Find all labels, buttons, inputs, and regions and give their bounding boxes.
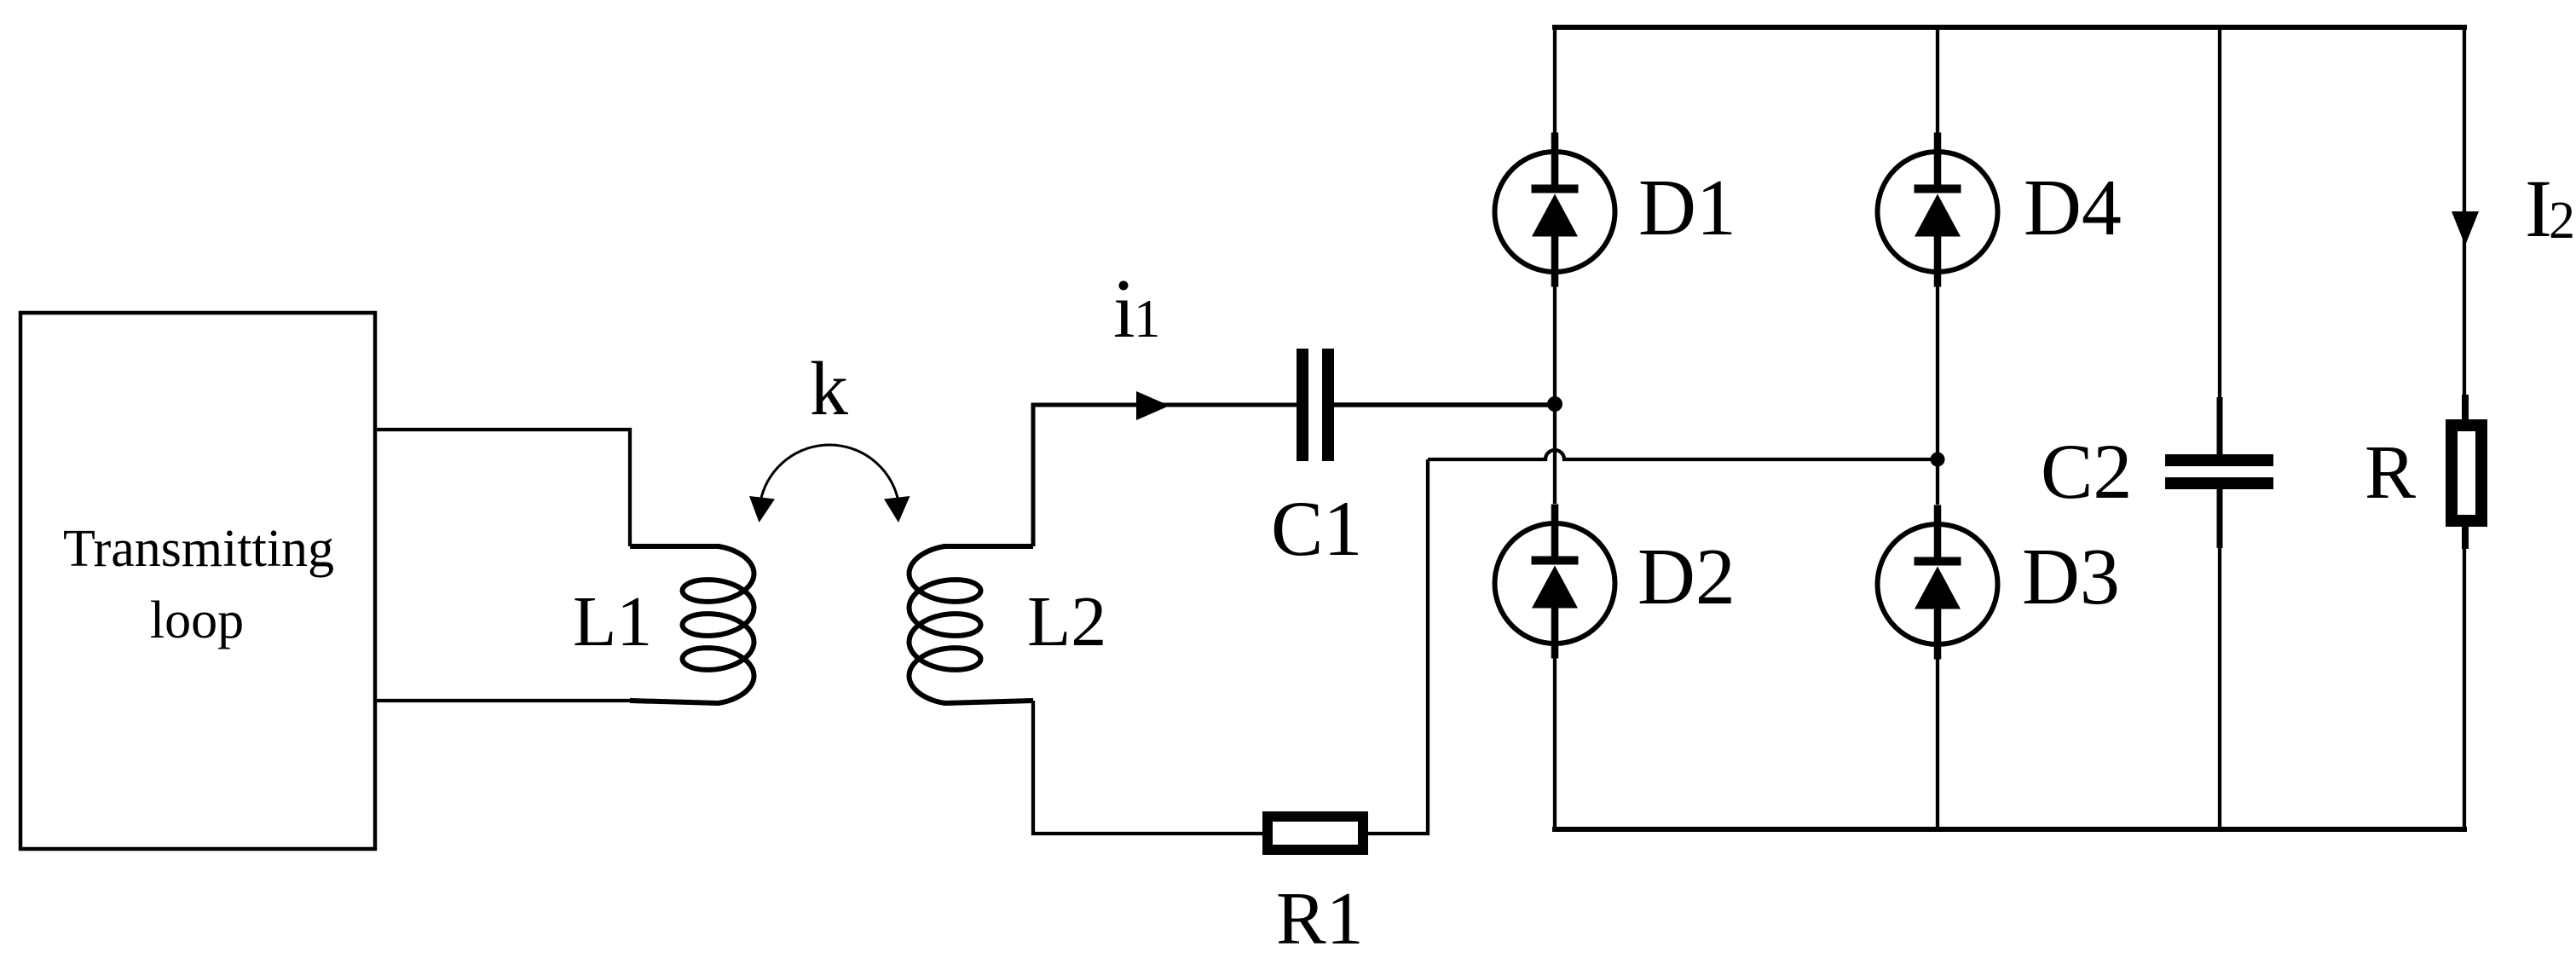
svg-text:2: 2 bbox=[2549, 192, 2575, 250]
svg-text:D1: D1 bbox=[1638, 164, 1736, 252]
diode D4 circle bbox=[1878, 152, 1998, 272]
wire right edge top bbox=[2463, 27, 2466, 395]
diode D2 circle bbox=[1495, 523, 1615, 643]
svg-text:D4: D4 bbox=[2024, 164, 2122, 252]
diode D2 cathode lead (top) bbox=[1551, 505, 1559, 565]
diode D1 circle bbox=[1495, 152, 1615, 272]
diode D3 circle bbox=[1878, 524, 1998, 644]
diode D1 triangle (anode, pointing up) bbox=[1532, 194, 1578, 237]
diode D2 anode lead (bottom) bbox=[1551, 609, 1559, 659]
wire D4 column bbox=[1936, 27, 1939, 136]
wire D1 column bbox=[1553, 27, 1557, 136]
capacitor C2 bottom plate bbox=[2165, 477, 2273, 489]
svg-text:loop: loop bbox=[150, 592, 244, 649]
svg-text:Transmitting: Transmitting bbox=[63, 520, 334, 578]
diode D3 cathode bar bbox=[1915, 557, 1961, 566]
wire hop line to node B bbox=[1428, 450, 1938, 459]
wire C2 column top bbox=[2218, 27, 2221, 401]
bottom rail bbox=[1552, 827, 2467, 832]
coupling arrowhead left bbox=[749, 496, 775, 522]
wire R1 to riser bbox=[1363, 459, 1428, 834]
diode D2 cathode bar bbox=[1532, 557, 1579, 565]
capacitor C2 top plate bbox=[2165, 454, 2273, 466]
diode D4 cathode bar bbox=[1915, 185, 1961, 193]
svg-text:D2: D2 bbox=[1637, 533, 1736, 621]
wire box to L1 bottom bbox=[375, 699, 635, 702]
wire L2 top riser bbox=[1033, 405, 1300, 546]
load resistor R bbox=[2452, 425, 2481, 521]
transmitting loop box bbox=[20, 313, 375, 849]
svg-text:C1: C1 bbox=[1271, 485, 1362, 572]
svg-text:1: 1 bbox=[1134, 289, 1161, 349]
coupling arc k bbox=[761, 445, 898, 498]
coupling arrowhead right bbox=[884, 496, 910, 522]
capacitor C2 bottom stem bbox=[2217, 489, 2223, 548]
current arrow I2 bbox=[2452, 211, 2479, 245]
diode D1 cathode lead (top) bbox=[1551, 133, 1559, 193]
svg-text:ı: ı bbox=[1113, 267, 1135, 354]
wire box to L1 top bbox=[375, 430, 630, 546]
svg-text:L1: L1 bbox=[573, 582, 652, 661]
inductor L2 bbox=[910, 546, 1034, 703]
node B junction dot bbox=[1931, 453, 1945, 467]
capacitor C1 right plate bbox=[1322, 349, 1334, 461]
svg-text:k: k bbox=[810, 347, 848, 431]
diode D2 triangle (anode, pointing up) bbox=[1532, 566, 1578, 609]
node A junction dot bbox=[1547, 396, 1562, 412]
svg-text:R1: R1 bbox=[1276, 878, 1364, 958]
diode D4 cathode lead (top) bbox=[1934, 133, 1942, 193]
diode D1 cathode bar bbox=[1532, 185, 1579, 193]
diode D3 triangle (anode, pointing up) bbox=[1915, 567, 1961, 609]
capacitor C2 top stem bbox=[2217, 397, 2223, 454]
diode D3 cathode lead (top) bbox=[1934, 505, 1942, 566]
wire C2 column bottom bbox=[2218, 548, 2221, 829]
svg-text:D3: D3 bbox=[2022, 533, 2120, 621]
wire C1 to node A bbox=[1334, 402, 1555, 407]
current arrow i1 bbox=[1136, 391, 1170, 420]
svg-text:C2: C2 bbox=[2041, 428, 2132, 515]
top rail bbox=[1552, 25, 2467, 30]
resistor R1 bbox=[1268, 817, 1363, 850]
diode D1 anode lead (bottom) bbox=[1551, 237, 1559, 287]
load resistor R top stem bbox=[2462, 395, 2469, 425]
svg-text:L2: L2 bbox=[1027, 582, 1106, 661]
wire L2 bottom riser to R1 bbox=[1033, 701, 1268, 834]
svg-text:R: R bbox=[2365, 430, 2416, 515]
wire right edge bottom bbox=[2463, 549, 2466, 829]
diode D3 anode lead (bottom) bbox=[1934, 609, 1942, 660]
capacitor C1 left plate bbox=[1297, 349, 1308, 461]
load resistor R bottom stem bbox=[2462, 521, 2469, 549]
diode D4 anode lead (bottom) bbox=[1934, 237, 1942, 287]
inductor L1 bbox=[630, 546, 754, 703]
diode D4 triangle (anode, pointing up) bbox=[1915, 194, 1961, 237]
